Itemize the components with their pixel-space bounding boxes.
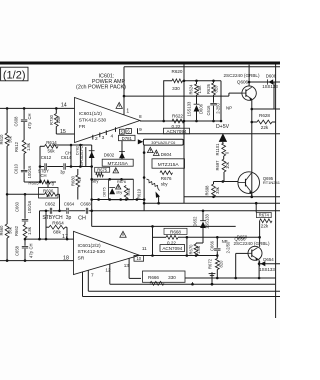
svg-text:R730: R730 bbox=[49, 114, 54, 125]
svg-text:R622: R622 bbox=[172, 114, 183, 119]
svg-text:820: 820 bbox=[213, 85, 218, 93]
svg-text:C658: C658 bbox=[14, 245, 19, 256]
svg-text:CH: CH bbox=[40, 173, 46, 178]
svg-text:14: 14 bbox=[61, 102, 67, 108]
svg-text:1.8k: 1.8k bbox=[26, 142, 31, 151]
svg-text:CH: CH bbox=[78, 215, 86, 221]
svg-text:R626: R626 bbox=[206, 83, 211, 94]
svg-text:R628: R628 bbox=[259, 113, 270, 118]
svg-text:C608: C608 bbox=[14, 116, 19, 127]
svg-text:47p: 47p bbox=[29, 250, 34, 258]
svg-text:STK412-530: STK412-530 bbox=[79, 118, 107, 124]
svg-text:Q606: Q606 bbox=[237, 80, 249, 85]
svg-text:C660: C660 bbox=[15, 201, 20, 212]
svg-text:5.6k: 5.6k bbox=[126, 188, 131, 195]
svg-text:D782: D782 bbox=[75, 146, 79, 155]
svg-text:R664: R664 bbox=[52, 221, 64, 227]
svg-text:15: 15 bbox=[60, 129, 66, 135]
svg-text:R605: R605 bbox=[28, 181, 39, 186]
svg-text:C668: C668 bbox=[80, 201, 91, 206]
svg-text:3p: 3p bbox=[66, 215, 72, 221]
svg-text:2SC2240 (GRBL): 2SC2240 (GRBL) bbox=[223, 73, 259, 78]
svg-text:33k: 33k bbox=[215, 186, 220, 194]
svg-text:STK412-530: STK412-530 bbox=[78, 249, 106, 255]
svg-text:56k: 56k bbox=[8, 226, 13, 234]
svg-text:C666: C666 bbox=[209, 240, 214, 251]
svg-text:10k: 10k bbox=[225, 161, 230, 169]
svg-text:1SS133: 1SS133 bbox=[259, 267, 275, 272]
svg-text:sby: sby bbox=[161, 181, 169, 186]
svg-text:CH: CH bbox=[27, 114, 32, 120]
svg-text:R619: R619 bbox=[136, 188, 141, 199]
svg-text:12k: 12k bbox=[56, 116, 61, 124]
svg-text:R676: R676 bbox=[161, 176, 172, 181]
svg-text:SR: SR bbox=[78, 256, 85, 262]
svg-text:MTZJ15A: MTZJ15A bbox=[108, 161, 129, 166]
svg-text:100/16: 100/16 bbox=[27, 200, 32, 213]
svg-text:sby: sby bbox=[92, 178, 99, 183]
svg-text:R697: R697 bbox=[215, 160, 220, 171]
svg-text:R675: R675 bbox=[97, 167, 108, 172]
svg-text:12: 12 bbox=[105, 267, 111, 272]
svg-text:1SS133: 1SS133 bbox=[186, 101, 191, 116]
svg-text:R624: R624 bbox=[189, 84, 194, 95]
svg-text:C616: C616 bbox=[206, 105, 211, 116]
svg-text:NP: NP bbox=[222, 239, 228, 244]
svg-text:30PUA20-FC6: 30PUA20-FC6 bbox=[151, 141, 175, 145]
svg-text:9: 9 bbox=[139, 127, 142, 132]
svg-text:2: 2 bbox=[95, 136, 98, 142]
svg-text:10: 10 bbox=[136, 256, 141, 261]
svg-text:1k: 1k bbox=[78, 177, 82, 181]
svg-text:R672: R672 bbox=[208, 258, 213, 269]
svg-text:ACN7094: ACN7094 bbox=[162, 246, 182, 251]
svg-text:CH: CH bbox=[29, 244, 34, 250]
svg-text:IC601(1/2): IC601(1/2) bbox=[79, 111, 102, 117]
svg-text:22k: 22k bbox=[261, 223, 269, 228]
svg-text:1.8k: 1.8k bbox=[197, 85, 202, 94]
svg-text:R610: R610 bbox=[0, 134, 4, 145]
svg-text:D675: D675 bbox=[102, 187, 107, 196]
svg-text:D654: D654 bbox=[263, 257, 274, 262]
svg-text:100/16: 100/16 bbox=[27, 165, 32, 178]
svg-text:(2ch POWER PACK): (2ch POWER PACK) bbox=[76, 85, 126, 91]
svg-text:MTZJ15A: MTZJ15A bbox=[158, 162, 180, 168]
svg-text:R698: R698 bbox=[204, 185, 209, 196]
svg-text:8: 8 bbox=[139, 114, 142, 119]
svg-text:C664: C664 bbox=[64, 201, 75, 206]
svg-text:D606: D606 bbox=[198, 103, 203, 114]
svg-text:D604: D604 bbox=[161, 152, 172, 157]
svg-text:R680: R680 bbox=[70, 175, 75, 186]
svg-text:3p: 3p bbox=[60, 169, 65, 174]
svg-text:2SC2240 (GRBL): 2SC2240 (GRBL) bbox=[233, 241, 269, 246]
svg-text:1: 1 bbox=[126, 109, 129, 115]
svg-text:330: 330 bbox=[172, 86, 180, 91]
svg-text:D652: D652 bbox=[193, 216, 198, 227]
svg-text:3: 3 bbox=[102, 135, 105, 141]
svg-text:1.8k: 1.8k bbox=[196, 245, 201, 254]
svg-text:FR: FR bbox=[79, 124, 86, 130]
svg-text:13: 13 bbox=[124, 263, 130, 268]
svg-text:RT1N241: RT1N241 bbox=[263, 180, 280, 185]
svg-text:R674: R674 bbox=[259, 213, 270, 218]
svg-text:D+5V: D+5V bbox=[216, 124, 230, 130]
svg-text:C612: C612 bbox=[41, 155, 52, 160]
svg-text:C614: C614 bbox=[61, 155, 72, 160]
svg-text:68k: 68k bbox=[53, 230, 61, 236]
svg-text:R662: R662 bbox=[14, 225, 19, 236]
svg-text:1.8k: 1.8k bbox=[27, 226, 32, 235]
svg-text:(1/2): (1/2) bbox=[3, 69, 26, 81]
svg-text:2-250: 2-250 bbox=[215, 103, 220, 114]
svg-text:R676: R676 bbox=[117, 180, 126, 184]
svg-text:4: 4 bbox=[110, 134, 113, 140]
svg-text:56k: 56k bbox=[8, 135, 13, 143]
svg-text:R620: R620 bbox=[172, 69, 183, 74]
svg-text:sby: sby bbox=[116, 189, 122, 194]
svg-text:56k: 56k bbox=[47, 148, 55, 153]
svg-text:CH: CH bbox=[65, 150, 71, 155]
svg-text:R666: R666 bbox=[148, 275, 159, 280]
svg-text:R668: R668 bbox=[170, 229, 181, 234]
svg-text:1SS133: 1SS133 bbox=[205, 213, 210, 228]
svg-text:NP: NP bbox=[226, 106, 232, 111]
svg-text:18: 18 bbox=[63, 255, 69, 261]
svg-text:820: 820 bbox=[219, 260, 224, 268]
svg-text:C662: C662 bbox=[45, 201, 56, 206]
svg-text:7: 7 bbox=[91, 272, 94, 277]
svg-text:R612: R612 bbox=[14, 141, 19, 152]
svg-text:47p: 47p bbox=[27, 121, 32, 129]
svg-text:330: 330 bbox=[168, 275, 176, 280]
svg-text:STBYCH: STBYCH bbox=[42, 215, 63, 221]
svg-text:R1101: R1101 bbox=[215, 143, 220, 156]
svg-text:22k: 22k bbox=[261, 125, 269, 130]
svg-text:D781: D781 bbox=[122, 136, 133, 141]
svg-text:R614: R614 bbox=[46, 140, 57, 145]
svg-text:C610: C610 bbox=[14, 163, 19, 174]
svg-text:11: 11 bbox=[142, 246, 147, 251]
svg-text:IC601(2/2): IC601(2/2) bbox=[78, 243, 101, 249]
svg-text:R670: R670 bbox=[188, 244, 193, 255]
svg-text:R660: R660 bbox=[0, 225, 4, 236]
svg-text:30PUA20-FC6: 30PUA20-FC6 bbox=[80, 144, 84, 167]
svg-text:D602: D602 bbox=[104, 153, 115, 158]
